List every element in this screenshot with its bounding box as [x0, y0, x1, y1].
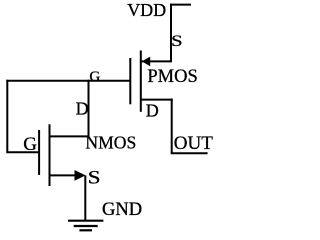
ground bar 1 (top)	[68, 220, 103, 222]
NMOS channel	[49, 124, 51, 186]
NMOS source wire	[50, 174, 77, 176]
svg-text:VDD: VDD	[127, 0, 166, 20]
wire: VDD down to PMOS source	[170, 4, 172, 62]
wire: NMOS gate lead	[6, 151, 38, 153]
wire: OUT stub	[171, 152, 208, 154]
svg-text:G: G	[89, 69, 100, 85]
svg-text:D: D	[76, 99, 89, 119]
wire: left vertical gate rail	[6, 80, 8, 153]
wire: gate bus (PMOS gate to left rail)	[6, 80, 130, 82]
svg-text:D: D	[146, 100, 159, 120]
svg-text:GND: GND	[102, 200, 142, 220]
wire: PMOS drain down to OUT	[171, 99, 173, 154]
svg-text:OUT: OUT	[174, 133, 213, 154]
wire: NMOS source down to ground	[84, 175, 86, 220]
PMOS drain wire	[141, 99, 173, 101]
svg-text:S: S	[88, 169, 101, 189]
ground bar 3 (bottom)	[79, 229, 92, 231]
PMOS source arrow (points into channel)	[142, 57, 150, 67]
svg-text:PMOS: PMOS	[147, 67, 197, 87]
transistor PMOS	[130, 51, 172, 112]
PMOS source wire	[141, 60, 172, 62]
wire: node G down to NMOS drain (node D)	[88, 80, 90, 138]
NMOS source arrow (points out of channel)	[75, 170, 86, 181]
wire: VDD rail stub	[170, 4, 191, 6]
PMOS channel	[140, 51, 142, 112]
svg-text:NMOS: NMOS	[85, 133, 136, 153]
NMOS gate plate	[38, 130, 40, 175]
svg-text:G: G	[23, 134, 37, 155]
ground bar 2 (middle)	[74, 225, 98, 227]
PMOS gate plate	[129, 58, 131, 104]
NMOS drain wire	[50, 135, 90, 137]
transistor NMOS	[39, 124, 89, 186]
ground	[68, 221, 103, 231]
svg-text:S: S	[171, 33, 183, 50]
